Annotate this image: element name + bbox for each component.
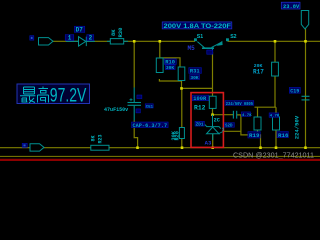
svg-text:R16: R16 [278,132,289,139]
wire zener bottom to bus [212,134,214,148]
resistor R10 value label [165,65,175,71]
capacitor CE1 pin1 tag [137,95,142,99]
resistor R30 body [110,39,123,44]
svg-text:2: 2 [89,35,93,42]
svg-text:R23: R23 [98,134,104,143]
wire R17 branch [274,41,276,62]
red annotation box [191,93,223,148]
glyph gao (高) [38,87,49,103]
glyph zui (最) [20,87,36,103]
resistor R16 value label 4.7K [269,113,280,119]
svg-text:R30: R30 [117,28,124,38]
svg-text:R12: R12 [194,105,206,112]
svg-text:224/50V: 224/50V [294,115,301,139]
wire R16 top stub [275,107,277,117]
resistor R31 value label [190,75,200,81]
voltage callout box 97.2V [17,84,90,104]
zener ZD1 designator label [195,121,204,127]
wire M5 base down through R12 node [212,52,214,96]
capacitor C19 label [289,87,300,94]
wire bottom bus rail [0,147,320,149]
wire R16 bottom to bus [275,130,277,148]
resistor R16 body [273,117,280,130]
svg-text:R31: R31 [190,69,200,75]
junction dots [133,40,307,149]
capacitor CE1 electrolytic [128,88,142,121]
svg-text:8K: 8K [110,29,117,36]
svg-text:30K: 30K [190,75,199,81]
svg-text:D7: D7 [76,27,84,34]
net label tag near connector P1 [30,36,34,40]
svg-text:1: 1 [68,35,72,42]
zener ZD1 ref pin wire [223,130,241,132]
svg-text:30K: 30K [166,65,175,71]
resistor R12 value label 100R [192,95,209,102]
zener ZD1 right tag S20 [224,123,234,129]
resistor R31 name label [189,68,202,75]
connector P3 bottom-left [30,144,44,151]
svg-text:ZD1: ZD1 [196,123,204,128]
resistor R16 name label [277,132,289,140]
net label tag near connector P3 [22,143,27,147]
label box 23.8V [281,2,300,10]
red underline [0,159,320,161]
resistor R17 body [272,62,279,76]
svg-text:M5: M5 [188,45,196,52]
svg-text:8K: 8K [91,135,97,141]
capacitor CE1 name label [145,104,153,110]
resistor R10 body [156,58,163,73]
wire lower horizontal rail [0,155,320,157]
svg-text:S2: S2 [230,34,236,40]
wire R31 bottom to base node [182,81,213,88]
resistor R31 body [178,67,185,81]
wire CE1 branch vertical [133,41,135,87]
connector P2 top-right [301,11,308,30]
diode D7 [66,37,110,46]
transistor M5 [194,38,229,53]
capacitor CE1 pin2 tag [136,109,140,113]
wire R10 bottom to R31 bottom [159,79,181,81]
resistor R30 right pin [124,40,128,42]
resistor R19 name label [248,132,260,140]
svg-text:47uF150v: 47uF150v [104,107,129,113]
svg-text:S1: S1 [197,34,203,40]
wire R20 bottom to bus [181,139,183,148]
resistor R20 body [179,128,184,139]
capacitor CE1 footprint label [132,122,169,129]
wire cap224 right to bus path [237,115,261,148]
resistor R23 body [91,145,109,150]
svg-text:2C: 2C [214,117,220,123]
svg-text:S2D: S2D [225,125,233,129]
zener diode ZD1 [205,115,221,140]
svg-text:R20: R20 [175,131,181,140]
svg-text:R19: R19 [249,132,260,139]
svg-text:4.7K: 4.7K [270,115,280,119]
wire right vertical net [305,29,307,148]
capacitor CE1 plus sign [130,98,133,101]
svg-text:23.8V: 23.8V [283,4,300,10]
svg-text:R17: R17 [253,68,264,75]
transistor M5 emitter arrowhead [216,41,222,46]
wire divider horizontal [255,106,277,108]
resistor R10 name label [164,59,176,66]
svg-text:CE1: CE1 [146,106,154,110]
wire R19 top stub [257,107,259,117]
diode D7 labels [65,26,94,42]
wire R10 branch vertical [159,41,161,58]
svg-text:4.7K: 4.7K [242,114,252,118]
wire R17 bottom to divider [274,76,276,107]
wire CE1 lower with jog to bus [134,121,137,148]
transistor M5 pin1 tag [207,50,213,54]
svg-text:97.2V: 97.2V [50,85,87,107]
transistor M5 pin labels S1 S2 [197,34,237,40]
resistor R19 body [254,117,261,130]
svg-text:A3: A3 [205,140,212,147]
wire main top rail [53,40,195,42]
capacitor C20 224/50V plates [233,111,236,119]
svg-text:1: 1 [222,129,225,133]
capacitor C19 plates [302,96,310,100]
connector P1 top-left [39,38,54,45]
svg-text:224/50V 0805: 224/50V 0805 [226,102,254,107]
wire R12 bottom to zener node [213,109,234,115]
label box 200V 1.8A TO-220F [162,22,232,30]
wire node to R20 [181,88,183,127]
wire R19 bottom stub [257,130,259,135]
wire R10 top to R31 top horizontal [160,58,180,67]
resistor R12 body [209,96,216,108]
svg-text:CSDN @2301_77421011: CSDN @2301_77421011 [233,150,314,159]
capacitor C20 footprint label 224/50V 0805 [225,101,254,107]
svg-text:100R: 100R [193,96,207,102]
svg-text:C19: C19 [290,88,299,94]
svg-text:200V 1.8A TO-220F: 200V 1.8A TO-220F [164,23,232,30]
svg-text:CAP-6.3/7.7: CAP-6.3/7.7 [133,123,168,129]
resistor R19 value label 4.7K [241,112,252,118]
